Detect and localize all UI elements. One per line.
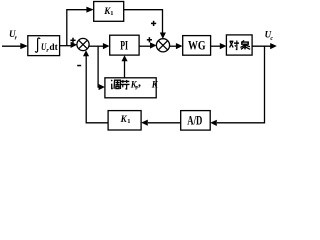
wire plant to output (252, 45, 270, 47)
svg-text:PI: PI (120, 38, 128, 52)
block K1 feedback (108, 111, 141, 130)
wire K1 bottom up to junction 1 minus input (86, 55, 108, 123)
svg-text:A/D: A/D (187, 114, 202, 128)
arrowhead into top K1 (86, 7, 93, 13)
wire feedback tap down to bottom row (217, 46, 265, 123)
wire branch up to K1 feedforward (67, 10, 87, 46)
wire junction 2 to WG (169, 45, 177, 47)
arrowhead into summing junction 1 (71, 42, 78, 48)
block A/D converter (181, 111, 211, 131)
svg-text:1: 1 (110, 10, 113, 17)
svg-text:WG: WG (188, 38, 206, 52)
arrowhead left into K1 bottom (141, 120, 148, 126)
svg-text:c: c (270, 36, 273, 42)
hanzi 调 (111, 80, 120, 89)
arrowhead into tuner block (99, 84, 105, 90)
block plant 对象 (226, 35, 252, 55)
wire branch down to tuner block (98, 46, 99, 87)
block PI regulator (110, 35, 139, 55)
node Uc output label (265, 29, 274, 42)
wire K1 top to summing junction 2 (124, 10, 163, 34)
arrowhead into integrator (20, 43, 28, 49)
wire A/D to K1 bottom (148, 122, 181, 124)
summing junction 2 (156, 39, 169, 52)
svg-text:dt: dt (49, 43, 58, 53)
wire PI to junction 2 (139, 45, 151, 47)
minus sign feedback input of junction 1 (77, 65, 81, 67)
arrowhead into WG (176, 43, 183, 49)
wire tuner to PI bottom (124, 60, 126, 78)
wire WG to plant (211, 45, 221, 47)
arrowhead left into A/D (210, 120, 217, 126)
svg-text:K: K (120, 115, 128, 125)
svg-text:1: 1 (127, 118, 130, 125)
svg-text:p: p (135, 84, 139, 90)
arrowhead into PI (103, 43, 110, 49)
arrowhead into junction 2 (150, 42, 157, 48)
arrowhead into plant (220, 43, 227, 49)
arrowhead down into summing junction 2 (160, 33, 166, 39)
wire input to integrator (2, 45, 22, 47)
arrowhead output (270, 43, 277, 49)
plus sign left input of junction 2 (147, 37, 152, 42)
block tuner: 调节 Kp, Ki (105, 78, 159, 98)
block integrator ∫Ur dt (28, 36, 60, 56)
plus sign top input of junction 2 (151, 21, 156, 26)
node Ur input label (9, 29, 18, 42)
arrowhead up into junction 1 bottom (83, 50, 89, 56)
block K1 top (94, 2, 124, 22)
block WG (183, 36, 211, 56)
wire junction 1 to PI (89, 45, 104, 47)
svg-text:K: K (151, 79, 159, 89)
arrowhead up into PI bottom (122, 55, 128, 61)
summing junction 1 (77, 38, 89, 50)
hanzi 象 (240, 40, 250, 49)
hanzi 节 (120, 80, 129, 89)
hanzi 对 (230, 41, 239, 50)
wire integrator to summing junction 1 (60, 45, 72, 47)
plus sign left input of junction 1 (70, 38, 75, 43)
